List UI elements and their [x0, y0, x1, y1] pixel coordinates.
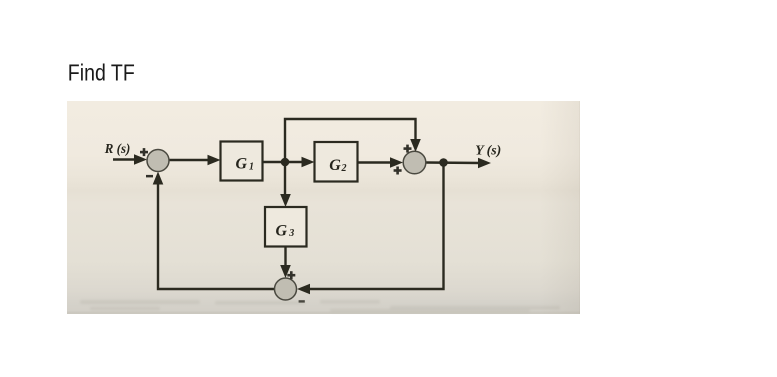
svg-text:2: 2: [341, 163, 347, 174]
svg-text:Find TF: Find TF: [68, 59, 135, 85]
svg-text:3: 3: [288, 228, 294, 239]
svg-text:G: G: [236, 156, 248, 173]
svg-text:G: G: [329, 157, 341, 174]
svg-text:Y (s): Y (s): [475, 144, 501, 159]
svg-text:1: 1: [249, 162, 254, 173]
svg-text:R (s): R (s): [104, 142, 130, 157]
svg-text:G: G: [276, 223, 288, 240]
